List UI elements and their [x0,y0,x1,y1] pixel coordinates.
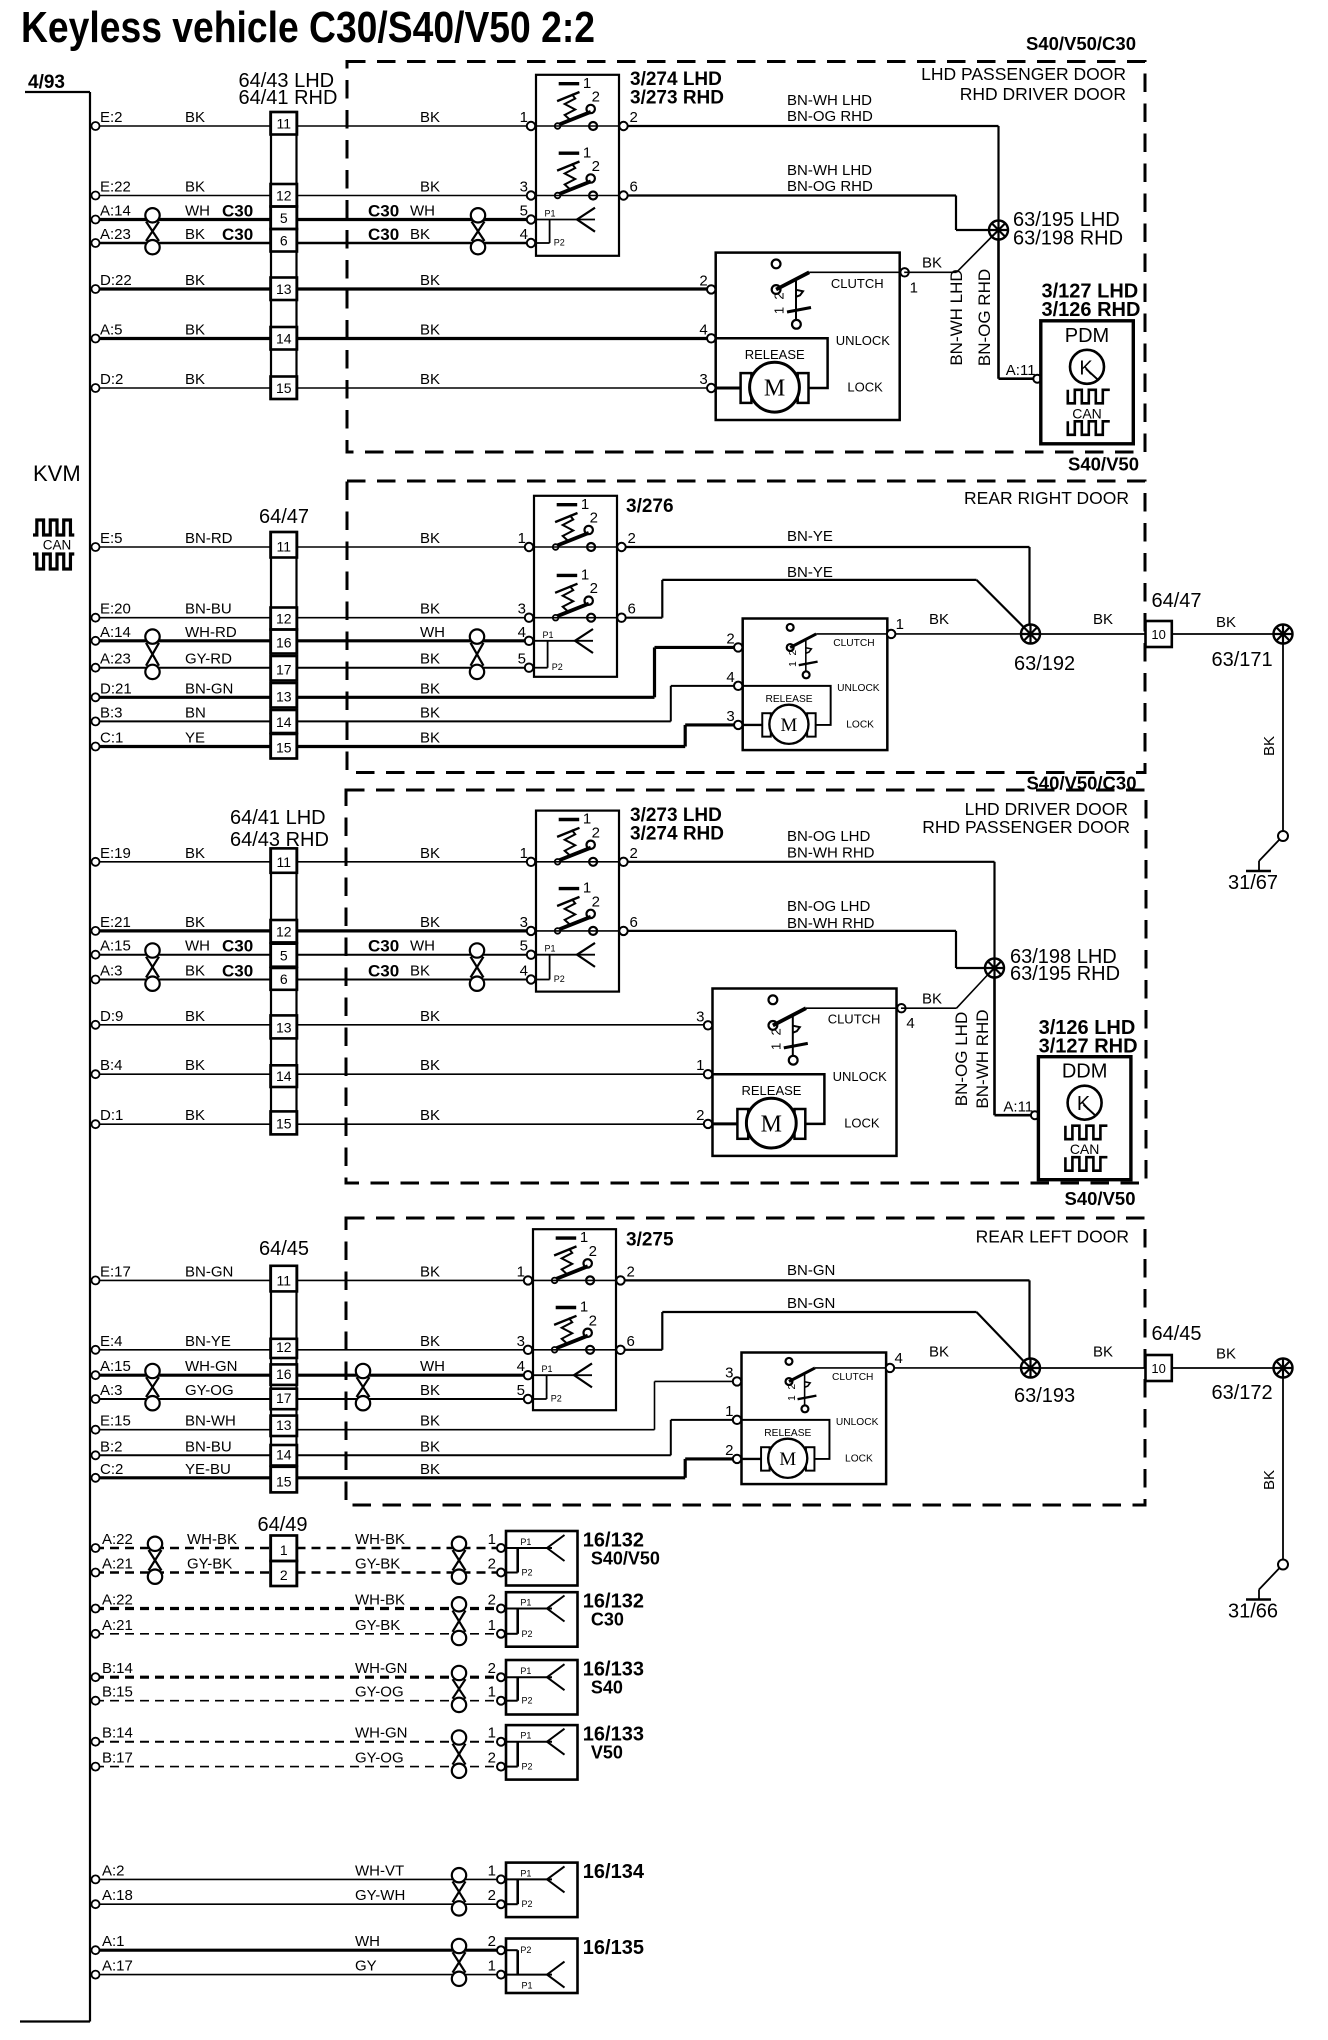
svg-text:WH: WH [420,624,445,641]
KVM pin terminal D:1 [92,1120,100,1128]
svg-text:4: 4 [520,226,528,243]
svg-text:BN-BU: BN-BU [185,1438,232,1455]
svg-text:1: 1 [488,1725,496,1742]
svg-text:P2: P2 [554,238,565,248]
lock clutch blade [787,644,794,651]
svg-text:BK: BK [420,1382,440,1399]
lock clutch detent spring [792,1015,794,1057]
svg-text:C30: C30 [368,962,399,981]
svg-text:A:17: A:17 [102,1958,133,1975]
svg-text:1: 1 [725,1403,733,1420]
svg-text:LOCK: LOCK [844,1115,880,1130]
svg-text:C30: C30 [222,937,253,956]
control module K symbol [1070,350,1104,384]
svg-text:BK: BK [420,1333,440,1350]
svg-text:3/276: 3/276 [626,496,674,517]
svg-text:BK: BK [922,255,942,272]
svg-text:BN-GN: BN-GN [185,1263,233,1280]
svg-text:1: 1 [580,1229,588,1246]
svg-text:2: 2 [280,1567,288,1583]
lock clutch pivot contact [787,624,794,631]
svg-text:64/45: 64/45 [1152,1323,1202,1345]
svg-text:1: 1 [910,279,918,296]
wire lock clutch to splice BK S4 [895,1367,1031,1369]
svg-text:BK: BK [185,179,205,196]
svg-text:WH-GN: WH-GN [185,1358,238,1375]
svg-text:GY-WH: GY-WH [355,1887,405,1904]
svg-text:14: 14 [276,1068,292,1084]
svg-text:A:23: A:23 [100,226,131,243]
svg-text:3: 3 [696,1008,704,1025]
svg-text:BN-WH RHD: BN-WH RHD [787,845,875,862]
wire A:14 WH (row 3) S1 [95,218,271,221]
lock clutch detent spring [795,279,797,321]
svg-text:1: 1 [583,811,591,828]
wire splice 63/172 to ground BK [1282,1378,1284,1560]
twisted pair right S1 [471,208,485,222]
svg-text:S40/V50: S40/V50 [1065,1188,1136,1209]
vertical wire splice to DDM A:11 [993,978,996,1116]
svg-text:BK: BK [185,914,205,931]
wire E:19 BK (row 1) S3 [95,861,271,863]
dashed door boundary box S1 [347,62,1145,453]
svg-text:2: 2 [592,158,600,175]
wire A:3 BK (row 4) S3 [95,979,271,981]
svg-text:P1: P1 [520,1868,531,1878]
svg-text:2: 2 [592,893,600,910]
svg-text:C30: C30 [222,225,253,244]
wire A:5 BK (row 6) S1 [95,337,271,340]
svg-text:S40/V50: S40/V50 [1068,454,1139,475]
svg-text:14: 14 [276,331,292,347]
svg-text:BN-RD: BN-RD [185,530,233,547]
svg-text:5: 5 [520,203,528,220]
svg-text:CAN: CAN [1070,1141,1100,1157]
svg-text:M: M [761,1112,782,1138]
lock pin terminals [733,1377,741,1385]
svg-text:BN-OG RHD: BN-OG RHD [975,269,994,366]
wire row13 jog to lock pin S2 [297,696,655,699]
svg-text:2: 2 [725,1442,733,1459]
svg-text:1: 1 [583,144,591,161]
svg-text:P2: P2 [552,662,563,672]
svg-text:P1: P1 [520,1666,531,1676]
svg-text:BK: BK [420,272,440,289]
KVM pin terminals [92,1673,100,1681]
splice node 63/192 [1021,625,1040,644]
svg-text:UNLOCK: UNLOCK [837,683,880,694]
svg-text:2: 2 [488,1750,496,1767]
wire splice to connector 64/47 BK [1040,633,1146,635]
dashed door boundary box S2 [347,481,1145,773]
wire lock clutch to splice BK S3 [901,1007,957,1009]
svg-text:D:9: D:9 [100,1008,123,1025]
vertical wire splice to PDM A:11 [997,240,1000,379]
svg-text:BK: BK [420,651,440,668]
lock clutch detent spring [804,1373,806,1406]
svg-text:V50: V50 [591,1743,623,1763]
svg-text:2: 2 [488,1592,496,1609]
svg-text:A:3: A:3 [100,963,123,980]
svg-text:1: 1 [581,567,589,584]
svg-text:16/134: 16/134 [583,1861,645,1883]
KVM pin terminals [92,1544,100,1552]
switch blade [558,112,591,125]
svg-text:A:1: A:1 [102,1933,125,1950]
svg-text:C30: C30 [591,1610,624,1630]
svg-text:WH: WH [410,203,435,220]
svg-text:BK: BK [420,1263,440,1280]
wire A:3 GY-OG (row 4) S4 [95,1398,271,1400]
svg-text:2: 2 [699,272,707,289]
svg-text:P1: P1 [545,944,556,954]
svg-text:11: 11 [276,854,291,870]
wire A:15 WH-GN (row 3) S4 [95,1374,271,1377]
svg-text:RHD DRIVER DOOR: RHD DRIVER DOOR [960,84,1126,104]
svg-text:BK: BK [420,680,440,697]
wire B:3 BN (row 6) S2 [95,720,271,722]
svg-text:A:5: A:5 [100,322,123,339]
lock pin terminals [704,1021,712,1029]
svg-text:WH-BK: WH-BK [355,1531,405,1548]
wire A:23 BK (row 4) S1 [95,242,271,244]
svg-text:BN-YE: BN-YE [185,1333,231,1350]
svg-text:2: 2 [488,1556,496,1573]
svg-text:WH-GN: WH-GN [355,1660,408,1677]
svg-text:E:2: E:2 [100,109,123,126]
svg-text:64/47: 64/47 [259,506,309,528]
svg-text:5: 5 [280,210,288,226]
wire D:9 BK (row 5) S3 [95,1024,271,1026]
svg-text:WH: WH [185,938,210,955]
svg-text:BK: BK [420,322,440,339]
KVM pin terminals [92,1605,100,1613]
twisted pair right 16/132 C30 [452,1597,466,1611]
svg-text:WH: WH [420,1358,445,1375]
svg-text:BK: BK [929,611,949,628]
switch spring hook [557,162,579,171]
svg-text:3: 3 [725,1364,733,1381]
svg-text:11: 11 [276,116,291,132]
svg-text:BK: BK [420,109,440,126]
svg-text:3/275: 3/275 [626,1230,674,1251]
svg-text:15: 15 [276,740,292,756]
module pin terminals 16/133 V50 [497,1738,505,1746]
svg-text:REAR LEFT DOOR: REAR LEFT DOOR [976,1227,1129,1247]
svg-text:2: 2 [726,630,734,647]
door lock unit S1 [716,253,900,420]
svg-text:WH: WH [355,1933,380,1950]
svg-text:A:22: A:22 [102,1531,133,1548]
svg-text:LHD DRIVER DOOR: LHD DRIVER DOOR [965,799,1128,819]
twisted pair right S3 [470,943,484,957]
svg-text:BN-WH: BN-WH [185,1413,236,1430]
antenna feed wires to 16/135 [95,1949,497,1952]
door switch assembly 3/276 [534,496,617,677]
svg-text:P1: P1 [520,1537,531,1547]
svg-text:16: 16 [276,1366,292,1382]
svg-text:BK: BK [185,1107,205,1124]
svg-text:LOCK: LOCK [847,379,883,394]
KVM pin terminal A:5 [92,335,100,343]
svg-text:WH-GN: WH-GN [355,1725,408,1742]
svg-text:A:14: A:14 [100,624,131,641]
svg-text:5: 5 [518,651,526,668]
svg-text:BK: BK [1261,1470,1278,1490]
svg-text:A:22: A:22 [102,1592,133,1609]
svg-text:1: 1 [772,307,787,314]
svg-text:P1: P1 [522,1981,533,1991]
switch contact (bar contact 1) [559,82,580,85]
svg-text:A:21: A:21 [102,1617,133,1634]
svg-text:BN-YE: BN-YE [787,564,833,581]
door lock unit S3 [713,989,897,1156]
svg-text:P1: P1 [543,630,554,640]
svg-text:P2: P2 [522,1762,533,1772]
switch blade [558,181,591,194]
svg-text:BK: BK [929,1344,949,1361]
svg-text:P1: P1 [545,209,556,219]
in-line connector 64/45 pin 10 [1146,1355,1172,1381]
svg-text:BN-WH LHD: BN-WH LHD [787,92,872,109]
control module DDM [1038,1057,1131,1180]
svg-text:63/172: 63/172 [1212,1382,1273,1404]
module pin terminals 16/132 S40/V50 [497,1544,505,1552]
svg-text:D:1: D:1 [100,1107,123,1124]
wire switch pin6 to splice S3 [628,930,956,932]
twisted pair right 16/135 [452,1939,466,1953]
svg-text:UNLOCK: UNLOCK [833,1069,888,1084]
svg-text:BK: BK [420,914,440,931]
svg-text:BK: BK [185,226,205,243]
svg-text:B:15: B:15 [102,1684,133,1701]
KVM pin terminal A:23 [92,239,100,247]
wire switch pin2 to splice S4 [625,1279,1030,1281]
twisted pair left S1 [145,208,159,222]
switch pin terminals [527,122,535,130]
connector block 64/43 LHD [271,112,297,399]
svg-text:1: 1 [488,1531,496,1548]
svg-text:2: 2 [627,1263,635,1280]
antenna module 16/133 V50 [506,1725,578,1780]
lock clutch pivot contact [772,260,781,269]
KVM pin terminal D:2 [92,384,100,392]
KVM pin terminal E:15 [92,1426,100,1434]
svg-text:BK: BK [410,963,430,980]
lock clutch blade [772,285,781,294]
lock pin terminals [707,285,715,293]
connector block 64/47 [271,532,297,759]
svg-text:1: 1 [583,880,591,897]
switch contact (bar contact 1) [556,1306,577,1309]
svg-text:1: 1 [580,1299,588,1316]
svg-text:3/127 RHD: 3/127 RHD [1039,1036,1138,1058]
svg-text:63/171: 63/171 [1212,649,1273,671]
wire connector to splice 63/172 BK [1172,1367,1274,1369]
switch blade [556,533,589,546]
svg-text:BK: BK [185,963,205,980]
svg-text:BN-GN: BN-GN [787,1295,835,1312]
svg-text:3/126 RHD: 3/126 RHD [1042,299,1141,321]
lock motor M [743,724,763,726]
lock motor M [716,387,741,390]
twisted pair right 16/133 V50 [452,1730,466,1744]
svg-text:D:22: D:22 [100,272,132,289]
KVM pin terminal A:3 [92,976,100,984]
svg-text:RHD PASSENGER DOOR: RHD PASSENGER DOOR [922,817,1130,837]
svg-text:BK: BK [185,1057,205,1074]
svg-text:2: 2 [592,824,600,841]
wire E:20 BN-BU (row 2) S2 [95,617,271,619]
switch blade [555,1266,588,1279]
svg-text:1: 1 [488,1862,496,1879]
svg-text:LOCK: LOCK [846,720,874,731]
svg-text:REAR RIGHT DOOR: REAR RIGHT DOOR [964,488,1129,508]
svg-text:1: 1 [581,496,589,513]
wire switch pin6 to splice S4 [625,1349,662,1351]
svg-text:3: 3 [726,708,734,725]
KVM pin terminal E:20 [92,614,100,622]
svg-text:1: 1 [788,661,799,667]
svg-text:BN-WH LHD: BN-WH LHD [947,269,966,365]
twisted pair left S4 [145,1364,159,1378]
svg-text:BN-OG LHD: BN-OG LHD [952,1012,971,1106]
switch contact 2 terminal [585,526,593,534]
switch pin terminals [524,1276,532,1284]
svg-text:13: 13 [276,281,292,297]
switch blade [555,1336,588,1349]
door lock unit S2 [743,619,888,751]
svg-text:P2: P2 [522,1899,533,1909]
svg-text:15: 15 [276,1115,292,1131]
wire E:15 BN-WH (row 5) S4 [95,1429,271,1431]
switch blade [558,917,591,930]
control module PDM [1041,321,1134,444]
svg-text:BK: BK [1261,736,1278,756]
svg-text:15: 15 [276,380,292,396]
lock motor M [742,1458,762,1460]
svg-text:2: 2 [488,1887,496,1904]
svg-text:S40/V50/C30: S40/V50/C30 [1026,33,1136,54]
wire splice 63/171 to ground BK [1282,644,1284,832]
switch spring hook [555,513,577,522]
wire C:1 YE (row 7) S2 [95,745,271,748]
wire row13 to lock pin S1 [297,287,712,290]
svg-text:CAN: CAN [1072,405,1102,421]
KVM pin terminal A:14 [92,216,100,224]
svg-text:1: 1 [488,1958,496,1975]
KVM pin terminal E:5 [92,543,100,551]
svg-text:31/67: 31/67 [1228,872,1278,894]
KVM pin terminal C:2 [92,1474,100,1482]
svg-text:D:2: D:2 [100,371,123,388]
svg-text:13: 13 [276,1417,292,1433]
svg-text:BN-GN: BN-GN [185,680,233,697]
svg-text:CAN: CAN [43,538,72,553]
KVM pin terminal A:14 [92,637,100,645]
splice node 63/193 [1021,1359,1040,1378]
svg-text:63/192: 63/192 [1014,653,1075,675]
svg-text:C30: C30 [368,202,399,221]
svg-text:11: 11 [276,1272,291,1288]
svg-text:B:14: B:14 [102,1660,133,1677]
svg-text:E:4: E:4 [100,1333,123,1350]
wire C:2 YE-BU (row 7) S4 [95,1476,271,1479]
switch pin terminals [525,543,533,551]
svg-text:1: 1 [488,1684,496,1701]
svg-text:C30: C30 [222,962,253,981]
lock pin terminals [734,643,742,651]
switch contact 2 terminal [587,841,595,849]
switch P1/P2 antenna feed wires [534,640,593,642]
svg-text:B:4: B:4 [100,1057,123,1074]
svg-text:M: M [764,376,785,402]
svg-text:WH-BK: WH-BK [355,1592,405,1609]
switch contact 2 terminal [587,174,595,182]
svg-text:2: 2 [696,1107,704,1124]
lock release circuit [742,1420,830,1459]
svg-text:2: 2 [628,530,636,547]
svg-text:1: 1 [696,1057,704,1074]
KVM pin terminal B:3 [92,717,100,725]
wire A:23 GY-RD (row 4) S2 [95,667,271,669]
wire E:4 BN-YE (row 2) S4 [95,1349,271,1351]
ground terminal 31/67 [1278,831,1288,841]
switch spring hook [555,584,577,593]
KVM pin terminal A:15 [92,951,100,959]
lock clutch pivot contact [769,995,778,1004]
KVM pin terminal D:21 [92,693,100,701]
svg-text:B:3: B:3 [100,704,123,721]
wire switch pin6 to splice S1 [628,194,956,196]
svg-text:5: 5 [280,948,288,964]
svg-text:BN-OG RHD: BN-OG RHD [787,178,873,195]
svg-text:1: 1 [896,616,904,633]
svg-text:64/49: 64/49 [258,1514,308,1536]
svg-text:4: 4 [699,321,707,338]
svg-text:BK: BK [420,730,440,747]
switch contact (bar contact 1) [559,818,580,821]
svg-text:GY-RD: GY-RD [185,651,232,668]
svg-text:2: 2 [488,1933,496,1950]
svg-text:BK: BK [1216,614,1236,631]
svg-text:4: 4 [906,1015,914,1032]
switch P1/P2 antenna feed wires [533,1374,592,1376]
svg-text:P2: P2 [551,1394,562,1404]
svg-text:BK: BK [1216,1346,1236,1363]
svg-text:BN-GN: BN-GN [787,1262,835,1279]
door switch assembly 3/274 LHD [536,75,619,256]
svg-text:UNLOCK: UNLOCK [836,1417,879,1428]
svg-text:A:11: A:11 [1006,362,1036,379]
svg-text:D:21: D:21 [100,680,132,697]
wire E:17 BN-GN (row 1) S4 [95,1279,271,1281]
svg-text:P1: P1 [520,1731,531,1741]
svg-text:LHD PASSENGER DOOR: LHD PASSENGER DOOR [921,64,1126,84]
svg-text:1: 1 [583,75,591,92]
svg-text:2: 2 [772,292,787,299]
KVM pin terminal E:17 [92,1276,100,1284]
antenna feed wires to 16/132 S40/V50 [95,1547,271,1550]
splice node 63/195 LHD [989,221,1008,240]
svg-text:P1: P1 [542,1364,553,1374]
svg-text:WH: WH [185,203,210,220]
svg-text:RELEASE: RELEASE [742,1083,802,1098]
module pin terminals 16/133 S40 [497,1673,505,1681]
dashed door boundary box S3 [346,790,1146,1183]
svg-text:BN-OG RHD: BN-OG RHD [787,108,873,125]
switch P1/P2 antenna feed wires [536,954,595,956]
